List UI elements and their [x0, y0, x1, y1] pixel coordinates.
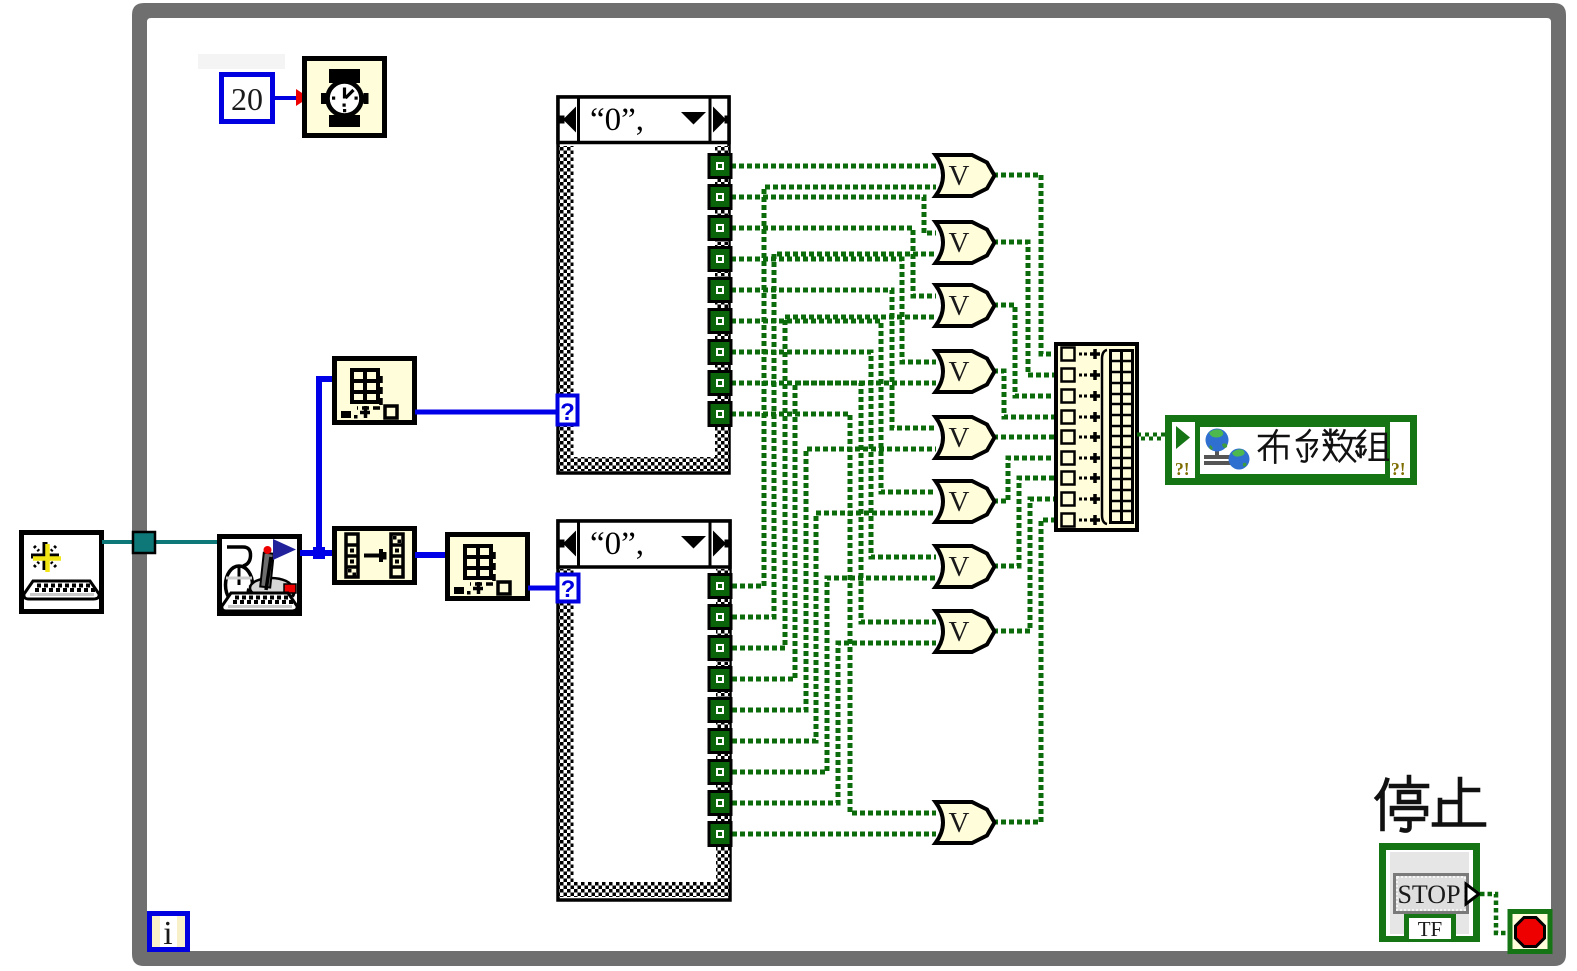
wire c1 t3	[731, 228, 936, 296]
case structure 1	[558, 97, 731, 473]
coercion dot red	[296, 89, 309, 106]
index array node 2	[448, 535, 528, 599]
wire c1 t7	[731, 352, 936, 557]
teal loop tunnel	[133, 532, 155, 553]
boolean array indicator	[1169, 419, 1414, 482]
svg-text:?!: ?!	[1175, 459, 1190, 479]
or gate 4	[936, 351, 995, 392]
svg-text:V: V	[949, 486, 970, 518]
wire index array 2 to case 2 selector	[528, 586, 560, 591]
svg-text:?: ?	[561, 576, 576, 603]
wire g9 out	[993, 520, 1054, 822]
svg-text:V: V	[949, 422, 970, 454]
wire c2 t8	[732, 643, 936, 803]
green wires case 2 to or gates	[732, 187, 936, 834]
acquire input data node	[220, 537, 300, 614]
svg-text:“0”,: “0”,	[590, 526, 644, 562]
case structure 2	[558, 521, 731, 900]
blue wire acquire out with junction	[300, 550, 332, 556]
build array node	[1056, 344, 1137, 530]
svg-text:“0”,: “0”,	[590, 102, 644, 138]
wire g7 out	[993, 478, 1054, 566]
or gate 9	[936, 802, 995, 843]
svg-text:20: 20	[231, 81, 263, 117]
wire blue 20 to wait	[275, 96, 305, 100]
wire c1 t5	[731, 290, 936, 428]
svg-text:V: V	[949, 160, 970, 192]
svg-text:V: V	[949, 356, 970, 388]
wire index array 1 to case 1 selector	[415, 410, 560, 415]
wire c1 t1	[731, 164, 936, 169]
svg-text:V: V	[949, 551, 970, 583]
wire g6 out	[993, 458, 1054, 501]
or gate 7	[936, 546, 995, 587]
wire c2 t1	[732, 187, 936, 586]
wire c2 t7	[732, 578, 936, 772]
wire c1 t4	[731, 259, 936, 362]
loop iteration terminal i	[150, 914, 188, 953]
svg-text:TF: TF	[1418, 917, 1443, 941]
svg-text:?!: ?!	[1391, 459, 1406, 479]
loop condition terminal	[1510, 912, 1550, 952]
or gate 5	[936, 417, 995, 458]
or gate 6	[936, 481, 995, 522]
label ting zhi	[1377, 777, 1484, 831]
index array node 1	[335, 359, 415, 423]
wire c1 t6	[731, 321, 936, 492]
wire g1 out	[993, 175, 1054, 354]
label shadow above constant 20	[198, 54, 285, 69]
case 1 output tunnels	[709, 155, 731, 426]
case 2 output tunnels	[709, 575, 731, 846]
boolean array convert node	[335, 529, 415, 583]
wire c1 t2	[731, 197, 936, 233]
or gate 1	[936, 155, 995, 196]
wire c2 t2	[732, 254, 936, 617]
or gate 2	[936, 222, 995, 263]
wire c2 t6	[732, 513, 936, 741]
numeric constant 20	[222, 75, 273, 122]
svg-text:V: V	[949, 616, 970, 648]
svg-text:STOP: STOP	[1397, 880, 1460, 909]
globe network icon	[1204, 429, 1250, 470]
svg-text:V: V	[949, 290, 970, 322]
green wire stop button to loop condition	[1480, 894, 1509, 933]
svg-text:i: i	[163, 915, 172, 952]
wire convert to index array 2	[415, 552, 446, 558]
char zhi	[1434, 779, 1484, 825]
or gate 3	[936, 285, 995, 326]
wait ms node	[305, 59, 385, 136]
teal wire keyboard to acquire node	[102, 540, 219, 544]
wire c2 t5	[732, 449, 936, 710]
wire c2 t4	[732, 383, 936, 679]
wire c2 t9	[732, 832, 936, 837]
green wires or gates to build array	[993, 175, 1054, 822]
boolean array wire to indicator	[1137, 435, 1167, 439]
case 2 selector tunnel	[558, 575, 579, 604]
text bu er shu zu	[1259, 430, 1388, 463]
svg-text:?: ?	[560, 399, 575, 426]
keyboard initialize node	[22, 533, 102, 612]
char ting	[1377, 777, 1427, 831]
wire g4 out	[993, 371, 1054, 417]
wire g2 out	[993, 242, 1054, 375]
svg-text:V: V	[949, 227, 970, 259]
or gate 8	[936, 611, 995, 652]
wire c1 t9	[731, 414, 936, 813]
green wires case 1 to or gates	[731, 166, 936, 813]
wire g3 out	[993, 305, 1054, 396]
wire g5 out	[993, 435, 1054, 440]
case 1 selector tunnel	[558, 396, 578, 427]
wire c2 t3	[732, 317, 936, 648]
wire c1 t8	[731, 383, 936, 622]
stop button	[1379, 843, 1480, 942]
wire g8 out	[993, 499, 1054, 631]
svg-text:V: V	[949, 807, 970, 839]
